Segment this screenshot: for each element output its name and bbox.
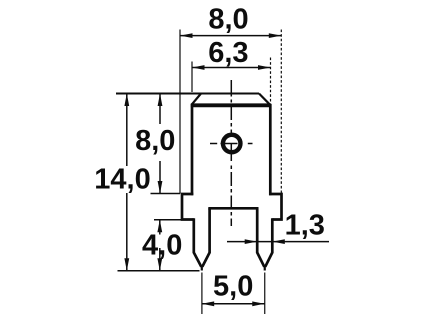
dim 1,3 leader line bbox=[227, 241, 329, 243]
body left edge bbox=[191, 104, 194, 195]
chamfer left slant bbox=[192, 94, 201, 105]
dim 14,0 vertical line bbox=[126, 94, 128, 271]
right leg inner edge bbox=[257, 208, 264, 266]
dim 4,0 vertical line bbox=[159, 220, 161, 271]
hole horizontal centerline bbox=[210, 143, 253, 145]
dim 5,0 left ext line bbox=[201, 273, 203, 315]
dim 8,0 top left ext line bbox=[179, 30, 181, 194]
hole bbox=[223, 135, 241, 153]
arrow 8,0 top right bbox=[269, 33, 282, 38]
right leg tip bbox=[264, 265, 266, 271]
right shoulder step bbox=[269, 194, 282, 220]
arrow 6,3 right bbox=[258, 65, 271, 70]
dim 4,0 top ext line bbox=[154, 219, 185, 221]
left leg tip bbox=[201, 265, 203, 271]
dim 8,0 left vertical line bbox=[159, 94, 161, 194]
svg-text:1,3: 1,3 bbox=[285, 210, 325, 242]
tab top edge with extension line bbox=[116, 93, 259, 95]
svg-text:8,0: 8,0 bbox=[135, 125, 175, 157]
dim 14,0 bottom ext line bbox=[118, 270, 200, 272]
arrow 14,0 bottom bbox=[124, 258, 129, 271]
dim 8,0 left bottom ext line bbox=[151, 193, 181, 195]
dim 5,0 line bbox=[202, 303, 265, 305]
dim 5,0 right ext line bbox=[264, 273, 266, 315]
slot top edge bbox=[208, 207, 258, 210]
svg-text:4,0: 4,0 bbox=[142, 230, 182, 262]
svg-text:5,0: 5,0 bbox=[213, 271, 253, 303]
svg-text:8,0: 8,0 bbox=[208, 4, 248, 36]
dim 6,3 left ext line bbox=[191, 62, 193, 93]
left shoulder step bbox=[182, 194, 194, 220]
arrow 6,3 left bbox=[192, 65, 205, 70]
arrow 4,0 top bbox=[157, 220, 162, 233]
arrow 4,0 bottom bbox=[157, 258, 162, 271]
dim 6,3 line bbox=[192, 67, 271, 69]
arrow 1,3 to right leg edge bbox=[272, 239, 285, 244]
svg-text:6,3: 6,3 bbox=[208, 37, 248, 69]
dim 6,3 right ext line bbox=[270, 58, 272, 104]
dim 8,0 top right ext line bbox=[280, 30, 282, 194]
arrow 8,0 vert top bbox=[158, 94, 163, 107]
bevel thick line bbox=[191, 103, 271, 107]
arrow 14,0 top bbox=[124, 94, 129, 107]
body right edge bbox=[269, 104, 272, 195]
dim 8,0 top line bbox=[180, 35, 281, 37]
chamfer right slant bbox=[259, 94, 270, 105]
arrow 5,0 left bbox=[202, 301, 215, 306]
left leg outer edge bbox=[194, 218, 202, 267]
vertical centerline bbox=[230, 80, 232, 226]
arrow 5,0 right bbox=[252, 301, 265, 306]
arrow 8,0 vert bottom bbox=[158, 181, 163, 194]
arrow 1,3 to left leg edge bbox=[245, 239, 258, 244]
svg-text:14,0: 14,0 bbox=[94, 164, 150, 196]
left leg inner edge bbox=[202, 208, 209, 266]
right leg outer edge bbox=[265, 218, 272, 267]
arrow 8,0 top left bbox=[180, 33, 193, 38]
